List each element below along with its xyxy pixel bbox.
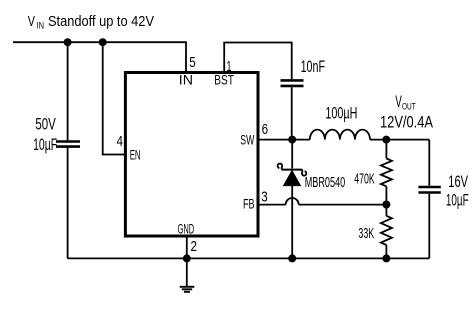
wire SW node to diode: [291, 140, 293, 169]
svg-text:16V: 16V: [448, 172, 468, 191]
svg-text:Standoff up to 42V: Standoff up to 42V: [48, 13, 154, 30]
junction dot VIN/EN: [99, 38, 107, 46]
wire EN pin lead (pin 4): [103, 42, 125, 154]
wire VOUT to R1: [385, 140, 387, 159]
wire FB hop over diode branch: [286, 198, 299, 205]
junction dot SW node: [288, 136, 296, 144]
wire SW pin stub (pin 6): [258, 139, 293, 141]
junction dot VOUT node: [382, 136, 390, 144]
wire GND pin stub (pin 2): [186, 236, 188, 258]
wire SW node to inductor: [292, 139, 310, 141]
wire diode anode to ground rail: [291, 186, 293, 259]
svg-text:33K: 33K: [358, 225, 374, 242]
wire C1 top lead: [67, 42, 69, 140]
resistor R1 470K: [381, 159, 392, 187]
svg-text:10nF: 10nF: [301, 57, 325, 76]
svg-text:3: 3: [261, 189, 268, 205]
node VIN label: VIN Standoff up to 42V: [28, 13, 154, 32]
inductor L1 100uH: [310, 130, 370, 140]
capacitor C3 16V 10uF plates: [418, 187, 440, 193]
svg-text:470K: 470K: [354, 171, 375, 188]
wire IN pin stub (pin 5): [185, 42, 187, 72]
wire inductor to VOUT corner: [370, 139, 429, 141]
capacitor C2 10nF plates: [281, 80, 304, 86]
junction dot diode/ground rail: [288, 254, 296, 262]
svg-text:IN: IN: [179, 72, 193, 87]
svg-text:1: 1: [227, 59, 232, 75]
wire FB node to R2: [385, 205, 387, 216]
svg-text:100µH: 100µH: [325, 103, 357, 122]
svg-text:OUT: OUT: [402, 101, 416, 112]
wire C1 bottom lead: [67, 148, 69, 259]
wire R1 to FB node: [385, 186, 387, 204]
svg-text:IN: IN: [37, 21, 45, 32]
svg-text:50V: 50V: [35, 115, 56, 134]
wire VIN top rail: [13, 41, 187, 43]
svg-text:10µF: 10µF: [33, 135, 57, 154]
svg-text:V: V: [28, 13, 35, 30]
wire FB to divider: [299, 204, 387, 206]
svg-text:MBR0540: MBR0540: [305, 174, 346, 191]
diode D1 MBR0540 schottky: [278, 164, 307, 186]
junction dot VIN/C1: [64, 38, 72, 46]
svg-text:4: 4: [117, 134, 124, 150]
junction dot FB node: [382, 201, 390, 209]
junction dot divider/ground rail: [382, 254, 390, 262]
wire BST loop (pin 1 to C2): [224, 43, 292, 80]
wire output right edge top lead: [428, 140, 430, 186]
junction dot GND node: [183, 254, 191, 262]
wire FB pin stub (pin 3): [258, 204, 286, 206]
capacitor C1 50V 10uF plates: [56, 142, 80, 147]
svg-text:5: 5: [189, 55, 196, 71]
ground symbol: [180, 258, 195, 291]
svg-text:EN: EN: [130, 148, 141, 163]
svg-text:2: 2: [191, 239, 198, 255]
svg-text:FB: FB: [243, 197, 255, 212]
wire C3 bottom lead: [428, 194, 430, 259]
wire C2 bottom lead to SW node: [291, 87, 293, 139]
svg-text:SW: SW: [240, 132, 254, 147]
wire ground bottom rail: [68, 257, 430, 259]
svg-text:6: 6: [262, 122, 269, 138]
svg-text:10µF: 10µF: [446, 190, 469, 209]
wire R2 to ground rail: [385, 245, 387, 258]
resistor R2 33K: [381, 216, 392, 245]
node VOUT label: [380, 92, 433, 132]
op-amp U1 regulator box: [125, 73, 258, 237]
svg-text:GND: GND: [178, 222, 195, 237]
svg-text:12V/0.4A: 12V/0.4A: [380, 113, 433, 132]
